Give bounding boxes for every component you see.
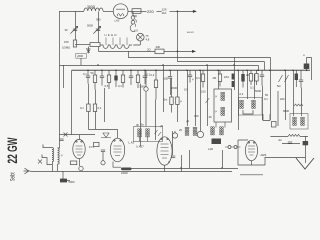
svg-text:300Ω: 300Ω [87,5,96,9]
svg-text:5000: 5000 [69,180,75,184]
wire vertical x117.5 tube2 top [117,129,119,138]
wire arrow drop [304,136,306,163]
wire u500 stub [80,58,82,65]
wire R19 stubs [250,70,252,85]
wire C12 stubs [300,70,302,87]
svg-text:a.u.m: a.u.m [187,31,194,34]
svg-text:200: 200 [280,97,285,101]
wire plug drop [132,11,134,15]
wire right edge vertical [307,58,312,81]
svg-text:300: 300 [194,114,199,118]
svg-text:5000: 5000 [87,24,93,28]
tube V1 electrodes [76,146,83,155]
resistor R7 row [93,75,96,83]
grid cap circle a [228,146,231,149]
svg-text:L4Ω: L4Ω [208,147,213,151]
wire vertical x238 [237,70,239,130]
shield box L6 L7 [239,98,263,116]
resistor R32 row mid [201,74,204,82]
resistor R34 on x177 [176,97,179,105]
coil cluster LB1 [138,129,142,137]
wire lines y168 [125,167,238,169]
tube V1 pin1 [76,141,77,142]
node junction y51 [177,51,179,53]
wire vertical x187 [186,70,188,126]
wire vertical x195 [194,70,196,126]
wire V2 bottom elbow [113,162,121,168]
wire segment [157,10,162,12]
wire x163 long [162,65,164,112]
wire C9 stubs [144,70,146,84]
wire L1a left stub [127,51,129,57]
coil L3 dotted [193,127,197,135]
wire lines y171b [130,171,232,173]
wire x88 stub [87,47,89,54]
varistor slash1 [279,75,283,82]
svg-text:0,5: 0,5 [105,84,109,88]
varistor slash2 [285,75,289,82]
trimmer arrow C1 [70,26,77,33]
svg-text:20: 20 [179,128,182,132]
svg-text:220: 220 [147,9,154,14]
wire to junction [170,10,178,12]
wire C20 stubs [189,70,191,82]
capacitor C8 row [129,76,133,78]
svg-text:μ: μ [216,95,218,98]
svg-text:C: C [168,160,170,164]
wire vertical x247 low [246,70,248,99]
wire C5 stubs [87,70,89,83]
output box V4 shield [238,140,265,165]
resistor R35 small [272,122,277,128]
svg-text:0,2: 0,2 [151,73,155,77]
wire x181 up [180,155,182,172]
svg-text:nΩ: nΩ [278,138,282,142]
box around u500 [76,53,87,58]
coil L6 dotted [240,100,244,108]
wire R10 stubs [122,70,124,87]
wire horizontal y129 [88,128,117,130]
tube V3 envelope [157,137,172,165]
svg-text:μ: μ [181,100,183,103]
capacitor C1 variable [73,29,77,31]
resistor R33 row mid [218,74,221,82]
svg-text:U E E D: U E E D [105,33,117,37]
arrow ground right big [296,158,314,169]
wire vertical branch C2 [97,11,99,51]
svg-text:2M: 2M [213,76,217,80]
svg-text:μμ 5a: μμ 5a [136,123,144,127]
coil L7 dotted [252,100,256,108]
resistor R4 heater dropper wavy [100,45,132,48]
wire vertical x155 low [155,100,157,141]
wire vertical x270b [269,70,271,120]
resistor R23 [93,104,96,112]
wire C6 stubs [101,70,103,85]
wire vertical x254 low [253,74,255,99]
wire C8 stubs [130,70,132,85]
svg-text:μ500: μ500 [77,54,84,58]
node bus dots L3 [87,70,307,72]
wire S hook to lamp [130,24,135,32]
wire vertical x177b [176,70,178,122]
wire V1 bottom [78,159,80,166]
wire C17 drop [102,152,104,161]
shield box L8 L9 [290,114,308,130]
wire C13 bottom [306,69,308,70]
wire R24 stubs [171,78,173,113]
svg-text:50: 50 [91,71,94,75]
svg-text:0,1: 0,1 [264,97,268,101]
resistor R24 [170,97,173,105]
wire C11 stubs [261,70,263,85]
wire R12b stubs [155,70,157,99]
svg-text:+: + [303,54,305,58]
wire L2 elbow down [257,65,259,70]
capacitor C7 dark row [114,76,117,81]
capacitor C17 [101,150,105,152]
wire top mains line left [60,10,85,12]
wire vertical x234 [233,57,235,90]
switch mark [64,133,68,137]
capacitor C19 [288,142,292,144]
coil L9 dotted [301,117,305,125]
svg-text:0,1: 0,1 [196,76,200,80]
resistor R22 [87,104,90,112]
coil L10 zigzag [294,104,303,106]
trimmer slash x207 [206,98,210,103]
wire V4 right link [265,156,305,158]
tube V4 pin1 [248,142,249,143]
wire vertical x170 [169,70,171,76]
capacitor C6 row [100,76,104,78]
grid cap wire [225,146,241,148]
socket cup right [263,114,270,121]
wire switch line y134.5 [60,134,96,136]
wire vertical x207 [206,65,208,126]
wire R11 stubs [137,70,139,88]
trimmer slashes LB [155,130,162,136]
label Seibt [9,172,16,181]
svg-text:0,1: 0,1 [118,84,122,88]
lamp cross [138,35,143,40]
wire tap row [75,44,90,46]
wire vertical x278 low [277,91,279,126]
wire R18 stub [242,70,244,87]
resistor R2 [73,40,76,47]
antenna post tick [42,145,44,148]
resistor R26 dark [60,179,67,183]
connector plug P1 ring1 [131,16,135,20]
wire V3 bottom stub [164,165,166,171]
svg-text:μ: μ [192,78,194,81]
transformer T1 secondary [58,148,60,164]
svg-text:110: 110 [162,11,167,15]
tube V2 envelope [110,138,124,162]
svg-text:0,1: 0,1 [250,86,254,90]
arrow second lead [192,50,196,53]
wire under V4 box [240,174,263,176]
resistor R21 dark [295,74,298,81]
tube V1 envelope [73,139,85,158]
wire C15 down [169,78,171,95]
tube V3 pin1 [161,138,162,139]
wire R33 stubs [219,70,221,86]
wire vertical branch C1 [74,11,76,40]
fuse F1 [132,9,141,14]
wire T1 secondary top link [58,147,60,149]
arrow mains plug [193,10,197,13]
wire L1a elbow down [269,57,271,70]
wire link coils L6 L7 [243,110,253,114]
wire LB stubs [140,137,148,142]
wire R21 stubs [295,70,297,87]
node y168 dots [180,167,223,169]
wire R23 stubs [94,90,96,130]
wire R22 down [87,112,89,130]
wire lamp mid stub [199,120,201,131]
coil L2 dotted [185,127,189,135]
coil cluster LB2 [146,129,150,137]
coil L8 dotted [293,117,297,125]
lamp circle mid [197,131,203,137]
wire dropper to lamp [133,41,140,45]
coil L5 dotted [221,107,225,115]
tap marks dropper [106,38,127,46]
wire from choke to rectifier tube [103,10,113,12]
circle jack J1 [79,166,83,170]
earth post tick [41,155,43,158]
tube V6 internal electrodes [116,9,125,16]
coil cluster LC1 [211,127,215,135]
resistor R28 [94,143,100,147]
wire L3 left corner down [71,70,73,134]
svg-text:μ2: μ2 [186,119,190,123]
svg-text:100: 100 [164,77,169,81]
resistor R3 horizontal [90,43,100,47]
tube V2 electrodes [114,146,122,156]
wire x146 [145,70,147,126]
svg-text:0,1: 0,1 [147,73,151,77]
bus L3 main y70.3 [72,69,310,71]
svg-text:150: 150 [64,40,69,44]
svg-text:~M23: ~M23 [260,153,267,157]
diode D1 [101,133,111,138]
svg-text:5m: 5m [164,98,168,102]
svg-text:U.AE7: U.AE7 [136,145,144,149]
capacitor C21 dark [303,141,309,145]
svg-text:4,8: 4,8 [146,38,150,42]
lamp La scale lamp [137,33,145,41]
svg-text:400: 400 [156,45,161,49]
svg-text:0,2: 0,2 [98,106,102,110]
connector plug P1 ring2 [131,20,135,24]
wire V4 bottom stub [251,161,253,165]
svg-text:2Ω: 2Ω [147,47,151,51]
svg-text:μ: μ [216,110,218,113]
resistor R11 row [136,75,139,83]
potentiometer P2 bar [121,168,132,171]
resistor R30 dark upper [232,74,235,80]
wire R20 stubs [256,70,258,85]
resistor R5 on line [155,49,164,54]
svg-text:5Ω: 5Ω [277,84,281,88]
capacitor C12 [299,80,303,82]
wire antenna to coil [43,147,52,149]
tube V3 pin2 [167,138,168,139]
svg-text:30: 30 [209,115,212,119]
wire x172 mid drop [172,131,174,155]
coil L4 dotted [221,92,225,100]
svg-text:50: 50 [265,93,268,97]
wire rectifier to fuse [128,10,132,12]
tube V3 electrodes [161,144,169,158]
svg-text:0,2: 0,2 [240,92,244,96]
wire vertical x140 [139,84,141,146]
wire V1 top stub [78,135,80,140]
wire R9 stubs [108,70,110,89]
wire line y54 [98,50,192,52]
junction X mark [87,50,90,53]
tube V4 pin2 [253,142,254,143]
wire earth elbow [42,158,52,165]
resistor R20 [255,74,258,82]
wire vertical x105 [103,88,105,122]
svg-text:30: 30 [65,28,68,32]
svg-text:LA3: LA3 [115,19,120,23]
wire vertical x262 low [261,86,263,120]
wire ground bus y171 [31,170,131,172]
capacitor C18 [171,156,175,158]
wire T1 primary bottom [51,162,53,172]
resistor R19 [249,74,252,82]
wire fuse to mains terminal [141,10,147,12]
wire x63 stub [63,65,65,88]
wire bottom segment [60,171,70,181]
wire C13 top [306,58,308,64]
jack J2 circle [101,161,105,165]
wire IF to LC stubs [216,122,225,128]
svg-text:5000: 5000 [283,109,289,113]
wire C7 stubs [115,70,117,87]
resistor R10 row [121,75,124,83]
tube V6 rectifier LA3 envelope [113,4,128,19]
wire L1b elbow down [263,62,265,71]
wire x189 drop [188,150,190,168]
capacitor C14 trimmer circle [172,133,177,138]
shield box coils [134,127,163,142]
capacitor C9 row [143,76,147,78]
capacitor C15 [168,77,172,79]
wire vertical x293b [292,70,294,116]
svg-text:10000: 10000 [121,172,128,175]
capacitor C2 variable [96,29,100,31]
wire x218 stub [217,70,219,89]
resistor R18 dark [241,74,244,82]
capacitor C13 electrolytic dark [304,64,310,70]
grid cap circle b [234,146,237,149]
trimmer arrow C2 [93,26,100,33]
wire vertical x285b [284,70,286,120]
IF can box [214,89,232,122]
circle junction small [144,87,148,91]
transformer T1 primary [52,148,54,162]
antenna mark X [38,160,42,164]
wire border left vertical [59,11,61,148]
bus L1a y57 [128,56,270,58]
wire vertical drop from mains junction [176,11,178,61]
wire vertical x301 low [300,88,302,116]
wire x222 down [221,150,223,168]
wire vertical x200 [199,70,201,120]
svg-text:0,5: 0,5 [184,88,188,92]
svg-text:2000: 2000 [171,86,177,90]
wire C14 link [174,131,176,133]
capacitor C11 [260,75,264,77]
tube V4 electrodes [248,146,255,155]
svg-text:0,5MΩ: 0,5MΩ [62,46,70,50]
bus L2 y65 [60,64,259,66]
svg-text:5000: 5000 [255,89,261,93]
wire mid right y143 [282,142,300,144]
wire R7 stubs [94,70,96,89]
svg-text:p: p [61,154,63,157]
bus L1b y61.5 [177,61,264,63]
svg-text:0,1: 0,1 [83,72,87,76]
svg-text:0,1: 0,1 [80,106,84,110]
wire mains lead with arrow [177,10,193,12]
earth arrow left [24,168,31,174]
svg-text:ZA3: ZA3 [224,75,229,79]
capacitor C16 [59,139,63,141]
wire R27 line [270,135,308,137]
svg-text:4,5: 4,5 [134,29,138,33]
svg-text:22 GW: 22 GW [4,137,20,164]
wire T1 secondary bottom [57,164,59,171]
resistor R12b [154,80,157,88]
label 22 GW [4,137,20,164]
speaker transformer dark [212,139,222,145]
node dots L2 [97,64,235,66]
svg-text:100: 100 [201,90,206,94]
svg-text:za: za [146,35,149,38]
svg-text:Seibt: Seibt [9,172,16,181]
resistor R25 [70,161,77,165]
capacitor C20 row mid [188,75,192,77]
inductor L1 mains choke [84,8,103,11]
node mains junction [177,11,179,13]
tube V2 pin2 [120,140,121,141]
coil cluster LC2 [220,127,224,135]
svg-text:μ5: μ5 [160,124,164,128]
plug hook [135,20,136,27]
tube V2 pin1 [114,140,115,141]
tube V4 envelope [245,140,257,160]
wire mid vertical x84 [87,84,89,104]
tube V1 pin2 [81,141,82,142]
resistor R9 row [107,75,110,83]
resistor R27 zigzag [288,134,300,136]
resistor R31 dark lower [232,81,235,87]
wire R32 stubs [202,70,204,87]
capacitor C5 row [86,76,90,78]
